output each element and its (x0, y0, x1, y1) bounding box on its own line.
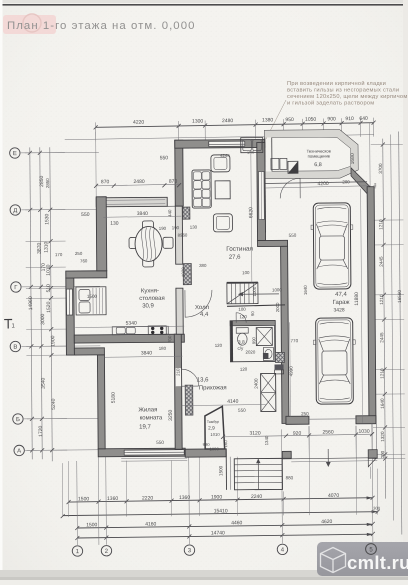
svg-text:Прихожая: Прихожая (199, 385, 227, 391)
svg-text:2240: 2240 (251, 494, 262, 500)
svg-text:120: 120 (215, 343, 223, 348)
svg-text:1360: 1360 (179, 495, 190, 501)
svg-text:550: 550 (156, 440, 164, 445)
svg-text:11880: 11880 (354, 292, 360, 306)
svg-text:2220: 2220 (142, 495, 153, 501)
svg-text:1010: 1010 (210, 432, 220, 437)
svg-text:2445: 2445 (379, 332, 384, 343)
svg-text:1900: 1900 (50, 335, 56, 346)
svg-text:16560: 16560 (397, 290, 402, 303)
svg-text:1030: 1030 (358, 429, 369, 435)
svg-text:19,7: 19,7 (139, 424, 151, 430)
svg-text:640: 640 (359, 116, 368, 122)
svg-text:130: 130 (110, 221, 119, 227)
svg-text:1300: 1300 (192, 119, 203, 125)
svg-text:1500: 1500 (87, 294, 98, 299)
svg-text:Гараж: Гараж (333, 300, 350, 306)
svg-text:4140: 4140 (227, 399, 238, 405)
svg-text:1380: 1380 (262, 117, 273, 123)
svg-text:100: 100 (238, 307, 246, 312)
svg-text:1000: 1000 (209, 446, 219, 451)
svg-text:2445: 2445 (379, 256, 384, 267)
svg-text:Е: Е (13, 151, 17, 157)
svg-text:1500: 1500 (78, 496, 89, 502)
svg-text:План 1-го этажа на отм. 0,000: План 1-го этажа на отм. 0,000 (7, 20, 195, 32)
svg-text:Б: Б (16, 417, 20, 423)
svg-text:и гильзой заделать раствором: и гильзой заделать раствором (287, 100, 374, 107)
svg-text:190: 190 (159, 226, 167, 231)
svg-text:2400: 2400 (254, 378, 259, 389)
svg-text:4070: 4070 (328, 493, 339, 499)
svg-text:1310: 1310 (44, 241, 50, 252)
svg-text:2480: 2480 (133, 179, 144, 185)
svg-text:1720: 1720 (38, 425, 44, 436)
svg-text:250: 250 (75, 251, 83, 256)
svg-text:550: 550 (160, 155, 169, 161)
svg-text:3840: 3840 (137, 211, 148, 217)
svg-text:3840: 3840 (141, 350, 152, 356)
svg-text:700: 700 (167, 335, 172, 343)
svg-text:4990: 4990 (289, 366, 294, 377)
svg-text:5340: 5340 (126, 321, 137, 327)
svg-text:27,6: 27,6 (229, 255, 241, 261)
svg-text:п3в: п3в (373, 183, 377, 189)
svg-text:4220: 4220 (133, 120, 144, 126)
svg-text:170: 170 (41, 263, 47, 272)
svg-text:2020: 2020 (246, 350, 256, 355)
svg-text:4460: 4460 (231, 520, 242, 526)
svg-text:770: 770 (290, 338, 298, 343)
svg-text:А: А (17, 449, 21, 455)
svg-text:240: 240 (247, 150, 255, 155)
svg-text:3000: 3000 (40, 313, 46, 324)
svg-text:1000: 1000 (252, 286, 257, 296)
svg-text:210: 210 (176, 368, 181, 376)
svg-text:550: 550 (289, 233, 297, 238)
svg-text:cmlt.ru: cmlt.ru (347, 552, 408, 573)
svg-text:4620: 4620 (321, 519, 332, 525)
svg-text:1210: 1210 (378, 219, 383, 230)
svg-text:1530: 1530 (44, 213, 50, 224)
svg-text:1030: 1030 (181, 267, 186, 277)
svg-text:760: 760 (80, 258, 88, 263)
svg-text:1000: 1000 (272, 287, 282, 292)
svg-text:1500: 1500 (218, 465, 223, 476)
svg-text:4,4: 4,4 (200, 312, 209, 318)
svg-text:2560: 2560 (322, 429, 333, 435)
svg-text:550: 550 (81, 212, 90, 218)
svg-text:170: 170 (55, 252, 63, 257)
svg-text:510: 510 (46, 284, 52, 293)
svg-text:120: 120 (240, 367, 248, 372)
svg-text:190: 190 (172, 225, 180, 230)
svg-text:180: 180 (159, 346, 167, 351)
svg-text:3250: 3250 (168, 409, 174, 420)
svg-text:столовая: столовая (139, 296, 165, 302)
svg-text:160: 160 (223, 440, 228, 448)
svg-text:1500: 1500 (86, 522, 97, 528)
svg-text:880: 880 (286, 475, 294, 480)
svg-text:950: 950 (285, 117, 294, 123)
svg-text:Жилая: Жилая (138, 407, 157, 413)
svg-text:300: 300 (373, 506, 381, 511)
svg-text:14960: 14960 (28, 296, 34, 310)
svg-text:3540: 3540 (41, 377, 47, 388)
svg-text:550: 550 (238, 408, 246, 413)
svg-text:14740: 14740 (211, 530, 225, 536)
svg-text:1210: 1210 (379, 294, 384, 305)
svg-text:380: 380 (199, 263, 207, 268)
svg-text:помещение: помещение (308, 153, 331, 158)
svg-text:1340: 1340 (264, 435, 269, 445)
svg-text:При возведении кирпичной кладк: При возведении кирпичной кладки (287, 80, 386, 87)
svg-text:1360: 1360 (107, 496, 118, 502)
svg-text:1320: 1320 (380, 431, 385, 442)
svg-text:Тамбур: Тамбур (207, 420, 219, 424)
svg-text:В: В (13, 345, 17, 351)
svg-text:870: 870 (169, 179, 178, 185)
svg-text:вставить гильзы из несгораемых: вставить гильзы из несгораемых стали (287, 88, 399, 94)
svg-text:900: 900 (327, 116, 336, 122)
svg-text:8960: 8960 (178, 233, 188, 238)
svg-text:1050: 1050 (305, 117, 316, 123)
svg-text:1210: 1210 (380, 368, 385, 379)
svg-text:4160: 4160 (145, 521, 156, 527)
svg-text:1900: 1900 (211, 494, 222, 500)
svg-text:910: 910 (345, 116, 354, 122)
svg-text:3700: 3700 (378, 163, 383, 174)
svg-text:2850: 2850 (45, 178, 50, 188)
svg-text:90: 90 (250, 311, 255, 316)
svg-text:100: 100 (242, 270, 250, 275)
svg-text:920: 920 (293, 431, 302, 437)
svg-text:990: 990 (251, 336, 256, 344)
svg-text:1520: 1520 (46, 301, 52, 312)
svg-text:870: 870 (101, 179, 110, 185)
svg-text:Д: Д (13, 208, 17, 214)
svg-text:сечением 120х250, щели между к: сечением 120х250, щели между кирпичом (287, 94, 408, 100)
svg-text:30,9: 30,9 (142, 303, 154, 309)
svg-text:15410: 15410 (214, 508, 228, 514)
svg-text:Гостиная: Гостиная (226, 246, 253, 253)
svg-text:250: 250 (301, 411, 309, 416)
svg-text:3428: 3428 (334, 307, 345, 313)
svg-text:4240: 4240 (220, 153, 230, 158)
svg-text:3870: 3870 (37, 242, 43, 253)
svg-text:3120: 3120 (249, 431, 260, 437)
svg-text:2,9: 2,9 (208, 425, 215, 431)
svg-text:6,8: 6,8 (314, 162, 322, 168)
svg-text:с/у: с/у (237, 346, 244, 351)
svg-text:1640: 1640 (303, 285, 308, 295)
svg-text:440: 440 (167, 209, 172, 217)
svg-text:13,6: 13,6 (197, 377, 209, 383)
svg-text:Кухня-: Кухня- (141, 288, 159, 294)
svg-text:комната: комната (140, 415, 163, 421)
svg-text:120: 120 (239, 314, 247, 319)
svg-text:4200: 4200 (318, 181, 329, 187)
svg-text:2000: 2000 (275, 302, 280, 312)
svg-text:1680: 1680 (350, 153, 356, 164)
svg-text:1640: 1640 (380, 398, 385, 409)
svg-text:5180: 5180 (111, 392, 117, 403)
svg-text:130: 130 (190, 225, 198, 230)
svg-text:200: 200 (380, 450, 385, 458)
svg-text:2480: 2480 (222, 118, 233, 124)
svg-text:Холл: Холл (195, 305, 210, 311)
svg-text:47,4: 47,4 (335, 292, 347, 298)
svg-text:5240: 5240 (51, 398, 57, 409)
svg-text:200: 200 (342, 179, 350, 184)
